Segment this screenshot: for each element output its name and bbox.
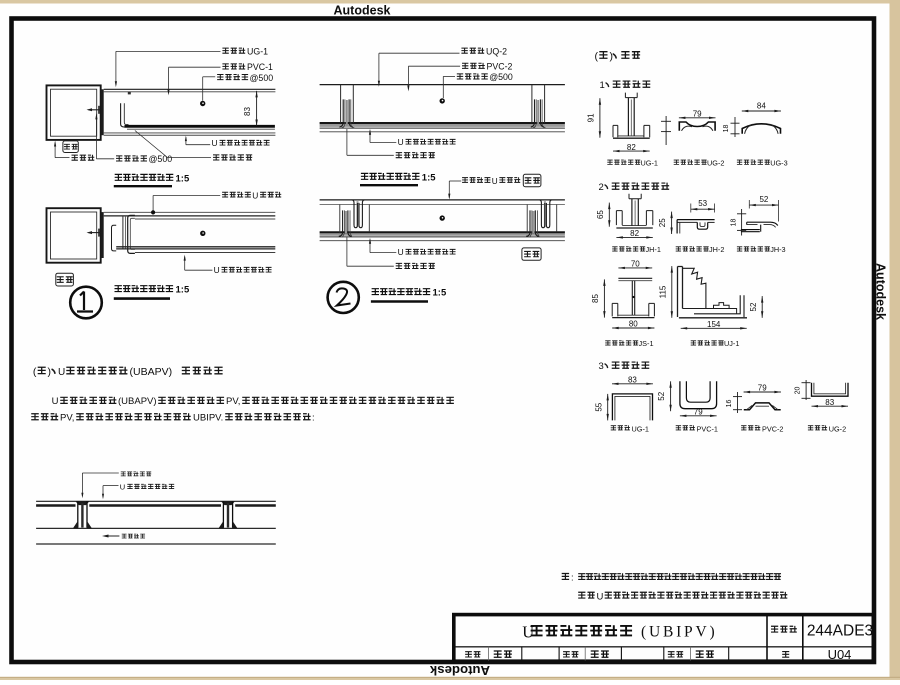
- svg-text:244ADE3: 244ADE3: [807, 623, 873, 640]
- label L1: building sealant: [213, 155, 219, 160]
- svg-text:79: 79: [694, 407, 703, 416]
- svg-text:UG-1: UG-1: [247, 46, 268, 56]
- svg-text:18: 18: [731, 219, 738, 227]
- svg-text:@500: @500: [250, 73, 274, 83]
- detail L2: expansion bolt dot: [200, 231, 205, 236]
- svg-text:82: 82: [627, 143, 636, 152]
- svg-text:PVC-1: PVC-1: [697, 424, 719, 433]
- detail circle 1: [70, 287, 102, 319]
- profile JH-3 body (z-clip): [747, 222, 778, 225]
- label M1: buffer PVC-2: [462, 63, 468, 68]
- title block outer frame: [454, 615, 874, 662]
- svg-text:PVC-1: PVC-1: [247, 62, 273, 72]
- svg-text:25: 25: [658, 218, 667, 227]
- profile wall UG-2: dim 83: [812, 405, 849, 407]
- svg-text:154: 154: [707, 320, 721, 329]
- detail M1: glass joint right: [531, 85, 533, 124]
- profile wall PVC-2: dim 16: [737, 392, 739, 413]
- detail L1: top flange lines: [104, 88, 276, 90]
- scan tan edge right: [890, 0, 900, 680]
- svg-text:): ): [610, 51, 614, 63]
- detail L1: self-tapping screw symbol: [89, 109, 102, 111]
- svg-text:52: 52: [657, 391, 666, 400]
- svg-text:JS-1: JS-1: [639, 339, 654, 348]
- svg-text:(: (: [33, 366, 37, 378]
- svg-text:): ): [48, 366, 52, 378]
- svg-text:55: 55: [594, 402, 603, 411]
- svg-text:@500: @500: [489, 72, 513, 82]
- profile UG-2 plate body: [679, 122, 715, 131]
- svg-text:U04: U04: [828, 647, 852, 662]
- title block: atlas number label: [771, 626, 778, 632]
- svg-text:Autodesk: Autodesk: [429, 663, 490, 678]
- detail L2: inner PVC channel: [112, 225, 117, 251]
- label wall PVC-1: [676, 426, 681, 430]
- label wall alu UG-2: [808, 426, 813, 430]
- profile UG-3 cap: dim 84: [742, 110, 781, 112]
- roof detail: dark PV film segments: [36, 504, 75, 506]
- svg-text:20: 20: [795, 387, 802, 395]
- room-side box L1 (indoor): [63, 141, 78, 153]
- detail L2: outer J clamp: [128, 215, 135, 253]
- svg-text:PV,: PV,: [60, 412, 74, 423]
- svg-text:U: U: [120, 482, 125, 491]
- detail L1: U-glass web (thick): [125, 125, 275, 128]
- title block col dividers: [766, 615, 768, 661]
- detail L1: aluminium channel back plate: [101, 89, 104, 135]
- profile UG-1 support: dim 91: [599, 98, 601, 138]
- detail L1: bottom flange lines: [104, 132, 276, 134]
- profile UG-3 cap: dim 18: [734, 117, 736, 137]
- svg-text:70: 70: [631, 260, 640, 269]
- svg-text:UBIPV.: UBIPV.: [193, 412, 223, 423]
- svg-text:82: 82: [630, 229, 639, 238]
- detail M2: lower PV glass web + sealant: [320, 231, 565, 233]
- title L1: wall single-layer node 1:5: [115, 174, 122, 180]
- detail L2: mid vertical glass edge: [122, 216, 124, 250]
- svg-text:1:5: 1:5: [422, 172, 436, 183]
- profile JH-1: dim 65: [608, 203, 610, 227]
- profile wall UG-1 body (n): [612, 394, 652, 421]
- detail L1: dimension 83: [256, 91, 258, 126]
- profile UG-2 plate: thickness dim: [665, 116, 667, 145]
- detail M2: glass joint left (double): [339, 205, 341, 234]
- svg-text:U: U: [212, 138, 218, 148]
- profile JH-1 body: [616, 211, 622, 226]
- svg-text:(UBAPV): (UBAPV): [130, 366, 173, 378]
- watermark Autodesk right (rotated): [874, 263, 888, 320]
- svg-text:UG-1: UG-1: [632, 424, 649, 433]
- svg-text:3: 3: [599, 361, 604, 372]
- label M2: building sealant: [396, 263, 402, 268]
- svg-text:JH-2: JH-2: [709, 245, 724, 254]
- svg-text:U: U: [52, 396, 59, 407]
- label M1: building sealant: [396, 153, 402, 158]
- profile UJ: dim 154: [681, 327, 747, 329]
- label alu support UG-1: [607, 160, 612, 164]
- svg-text:83: 83: [243, 107, 252, 116]
- profile JH-3: dim 52: [749, 204, 778, 206]
- profile wall UG-2 body (shallow U): [812, 383, 849, 397]
- profile JS-1: dim 85: [603, 279, 605, 317]
- svg-text:1:5: 1:5: [176, 285, 190, 296]
- detail M1: glass joint left: [340, 85, 342, 124]
- svg-text:79: 79: [758, 384, 767, 393]
- profile UJ: dim 115: [671, 266, 673, 318]
- room-side box M1 (indoor): [523, 174, 541, 186]
- detail L2: lower glass web (thick): [116, 246, 275, 248]
- svg-text:91: 91: [587, 113, 596, 122]
- detail L1: expansion bolt dot: [200, 101, 205, 106]
- profile JS-1: dim 80: [612, 327, 654, 329]
- profile UJ big bracket: body: [678, 267, 683, 318]
- svg-text:65: 65: [596, 210, 605, 219]
- label alu hook plate JH-2: [676, 247, 681, 251]
- detail L2: steel column square: [47, 208, 101, 263]
- profile wall UG-1: dim 55: [607, 394, 609, 421]
- label alu plate UG-2: [674, 160, 679, 164]
- svg-text:1:5: 1:5: [176, 173, 190, 184]
- detail M2: glass joint right (double): [526, 205, 528, 234]
- svg-text:79: 79: [693, 109, 702, 118]
- svg-text:2: 2: [599, 182, 604, 193]
- svg-text:(: (: [595, 51, 599, 63]
- label L2: tempered white U-glass: [222, 192, 228, 197]
- svg-text:JH-1: JH-1: [646, 245, 661, 254]
- profile UG-1: dim 82: [613, 150, 650, 152]
- svg-text:U: U: [214, 265, 220, 275]
- svg-text:UG-1: UG-1: [641, 158, 658, 167]
- svg-text:UG-2: UG-2: [707, 158, 724, 167]
- label L1: alu alloy UG-1: [222, 48, 228, 53]
- svg-text:(UBIPV): (UBIPV): [641, 624, 717, 641]
- label alu support JS-1: [605, 341, 610, 345]
- detail L2: aluminium channel back plate: [101, 212, 104, 258]
- svg-text:JH-3: JH-3: [770, 245, 785, 254]
- label L1: expansion bolt @500: [217, 74, 223, 79]
- label L1: self-tapping screw @500: [116, 156, 122, 161]
- roof label: existing roof (arrow): [105, 535, 120, 537]
- detail M1: top line: [320, 84, 565, 86]
- svg-text:1: 1: [600, 80, 605, 91]
- profile wall UG-2: dim 20: [805, 380, 807, 400]
- svg-text:18: 18: [723, 125, 730, 133]
- svg-text:U: U: [398, 247, 404, 257]
- profile wall PVC-2: dim 79: [744, 391, 781, 393]
- roof detail: seam left: [75, 501, 89, 505]
- roof detail: seam right: [221, 501, 235, 505]
- label alu hook cap JH-3: [737, 247, 742, 251]
- svg-text:85: 85: [591, 294, 600, 303]
- label alu support JH-1: [612, 247, 617, 251]
- paragraph line 2: [31, 414, 39, 420]
- svg-text:(UBAPV): (UBAPV): [118, 396, 157, 407]
- svg-text::: :: [312, 412, 315, 423]
- detail L2: top lines (outer white glass layer): [104, 211, 276, 213]
- roof detail: top glass line: [36, 500, 276, 502]
- profile wall PVC-1: dim 52: [670, 381, 672, 411]
- title block row2: page: [782, 652, 789, 658]
- svg-text:U: U: [398, 137, 404, 147]
- profile wall PVC-2 body (hat): [744, 403, 781, 410]
- detail M1: PV glass web thick + sealant band: [320, 122, 565, 124]
- title M2: wall double-layer node 1:5: [372, 289, 379, 295]
- label alu cap UG-3: [737, 160, 742, 164]
- svg-text:53: 53: [698, 199, 707, 208]
- title L2: wall double-layer node 1:5: [115, 286, 122, 292]
- svg-text:52: 52: [749, 302, 758, 311]
- svg-text:U: U: [252, 190, 258, 200]
- profile JS-1: dim 70: [618, 267, 652, 269]
- label wall alu UG-1: [611, 426, 616, 430]
- title block row divider: [456, 646, 872, 648]
- detail L1: PVC pad: [128, 92, 131, 95]
- svg-text:115: 115: [658, 285, 667, 298]
- detail circle 2: [328, 282, 359, 313]
- svg-text:16: 16: [726, 400, 733, 408]
- detail L1: steel column square: [47, 85, 101, 139]
- label L1: buffer PVC-1: [222, 64, 228, 69]
- room-side box M2 (outdoor): [522, 248, 541, 260]
- label between M1-M2: tempered white U-glass: [462, 178, 468, 183]
- label M1: alu alloy UQ-2: [461, 48, 467, 53]
- profile wall PVC-1: dim 79: [680, 415, 717, 417]
- svg-text:Autodesk: Autodesk: [334, 4, 391, 18]
- detail L1: U-glass J profile: [121, 103, 127, 127]
- room-side box L2 (outdoor): [56, 273, 74, 286]
- svg-text:PVC-2: PVC-2: [762, 424, 784, 433]
- title block row2: reviewer cells: [465, 652, 472, 657]
- svg-text::: :: [571, 573, 574, 584]
- label M1: expansion bolt @500: [457, 74, 463, 79]
- profile JS-1 body (I-beam): [618, 277, 652, 279]
- scan tan edge bottom: [0, 678, 900, 681]
- label alu support UJ: [691, 341, 696, 345]
- profile UG-2 plate: dim 79: [679, 117, 716, 119]
- label wall PVC-2: [741, 426, 746, 430]
- label L1: steel structure: [72, 155, 78, 160]
- notes line 2: [578, 592, 585, 598]
- profile JH-3: dim 18: [741, 209, 743, 236]
- svg-text:80: 80: [629, 320, 638, 329]
- notes line 1: [562, 573, 569, 579]
- profile JH-1: dim 82: [616, 236, 652, 238]
- detail M2: inner surface line: [320, 204, 565, 206]
- profile UJ: dim 52: [761, 296, 763, 318]
- svg-text:U: U: [597, 591, 604, 602]
- detail L2: self-tapping screw symbol: [89, 232, 102, 234]
- roof label: building sealant: [121, 472, 126, 476]
- svg-text:@500: @500: [149, 154, 173, 164]
- title M1: wall single-layer node 1:5: [361, 173, 368, 179]
- svg-text:UG-2: UG-2: [829, 424, 846, 433]
- profile JH-2 body (top plate with hanging pocket): [677, 219, 715, 221]
- svg-text:UJ-1: UJ-1: [724, 339, 739, 348]
- detail M2: top line: [320, 199, 565, 201]
- detail M1: expansion bolt dot: [440, 98, 445, 103]
- profile JH-2: dim 53: [691, 208, 715, 210]
- svg-text:83: 83: [825, 398, 834, 407]
- svg-text:U: U: [492, 177, 498, 186]
- svg-text:52: 52: [759, 195, 768, 204]
- svg-text:PV,: PV,: [226, 396, 240, 407]
- svg-text:1:5: 1:5: [433, 288, 447, 299]
- profile JH-2: dim 25: [671, 212, 673, 234]
- svg-text:PVC-2: PVC-2: [487, 62, 513, 72]
- roof detail: existing roof bottom line: [36, 543, 276, 545]
- svg-text:UG-3: UG-3: [770, 158, 787, 167]
- svg-text:83: 83: [628, 375, 637, 384]
- profile UG-1 support body: [613, 125, 618, 137]
- svg-text:UQ-2: UQ-2: [486, 46, 507, 56]
- svg-text:U: U: [58, 367, 65, 378]
- roof detail: glass bottom / roof top line: [36, 527, 276, 529]
- watermark Autodesk bottom (rotated 180): [429, 663, 490, 678]
- scan tan edge top: [0, 0, 900, 4]
- profile wall PVC-1 body (U thick): [680, 381, 717, 408]
- profile wall UG-1: dim 83: [612, 383, 653, 385]
- profile UG-3 cap body: [742, 124, 780, 134]
- detail M2: expansion bolt dot: [440, 215, 445, 220]
- svg-text:84: 84: [757, 102, 766, 111]
